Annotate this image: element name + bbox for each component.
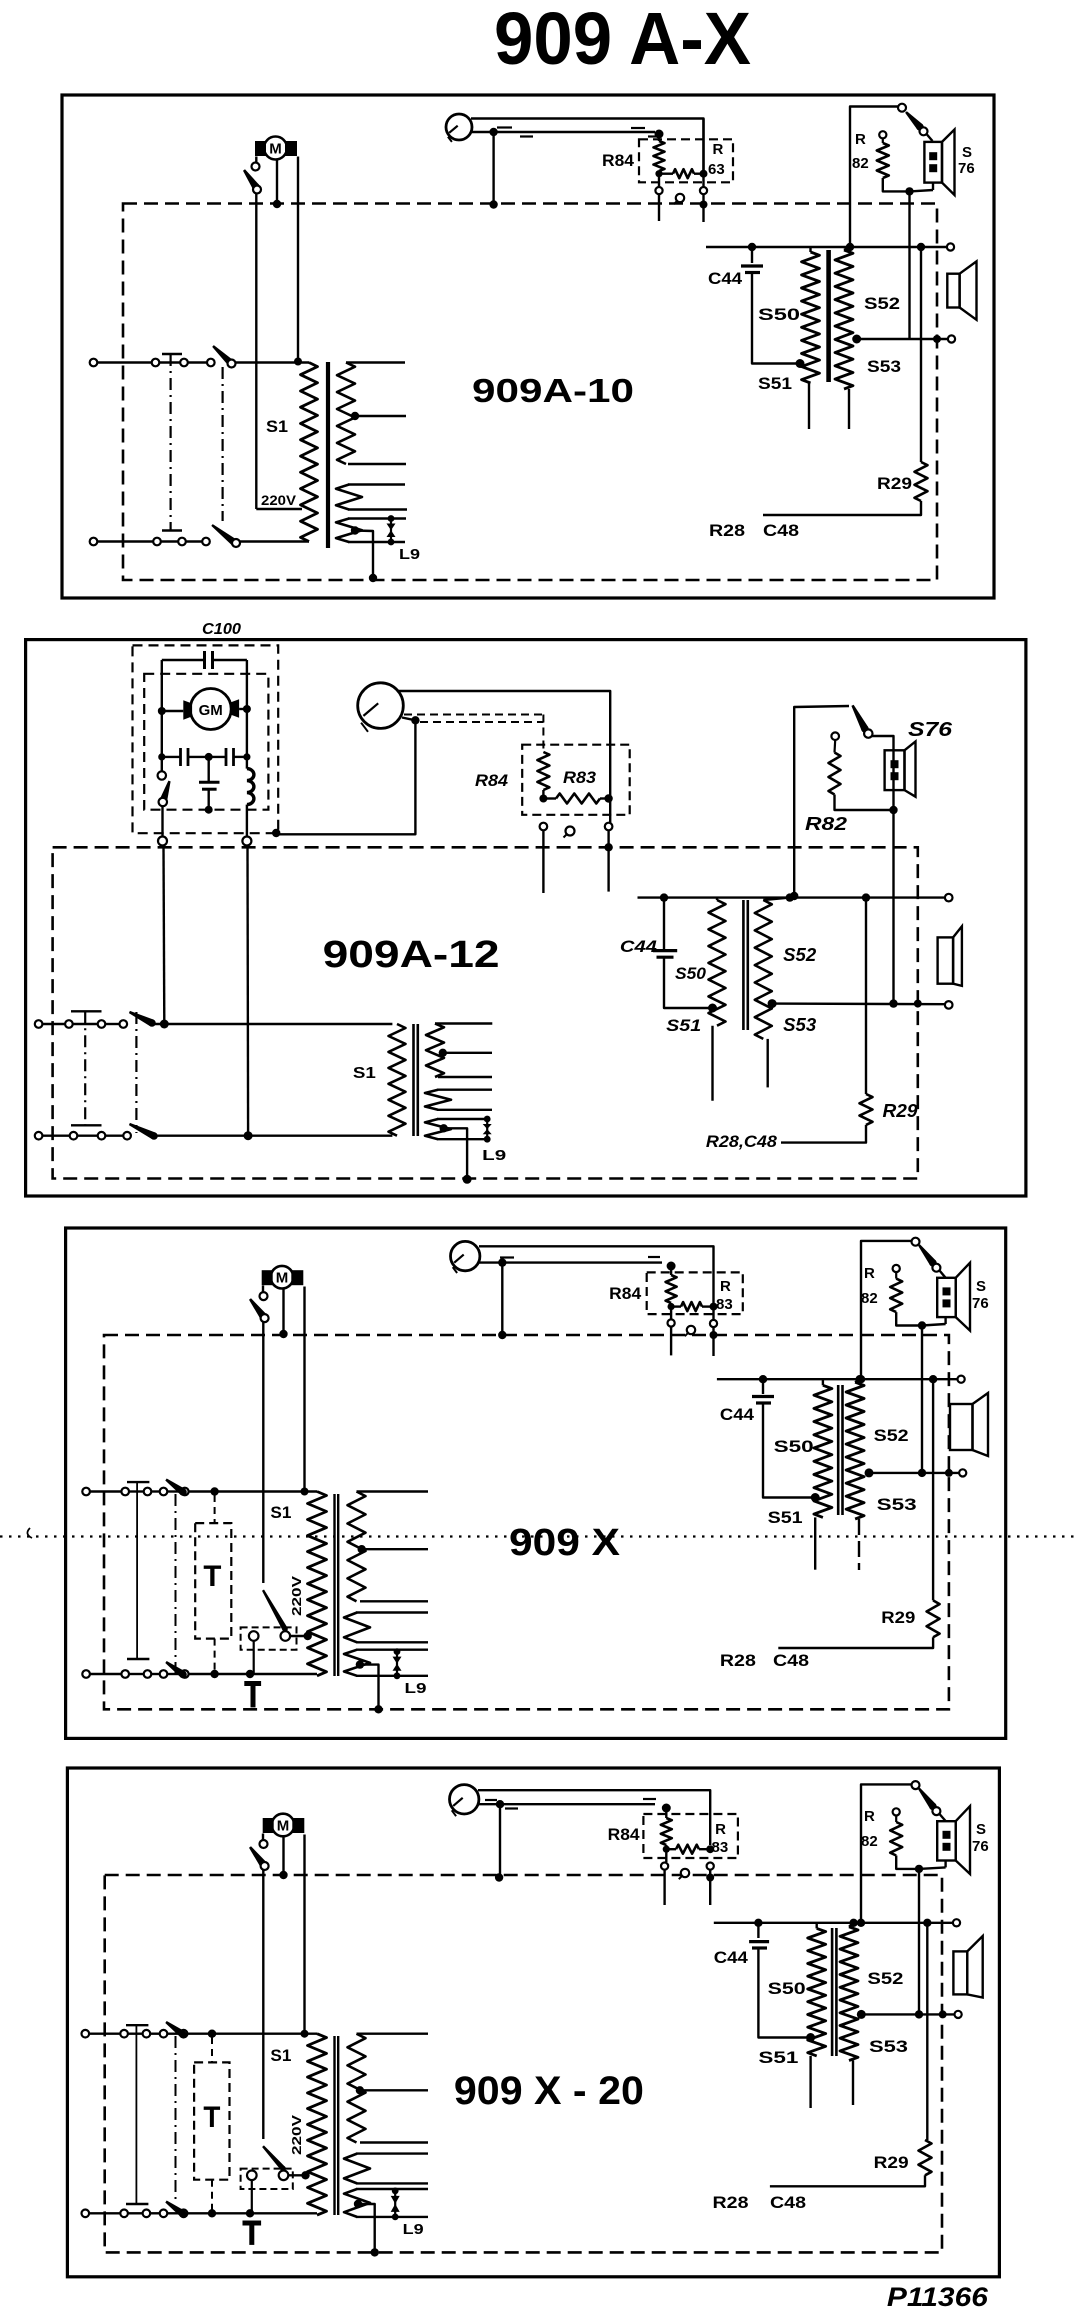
svg-text:83: 83 <box>712 1839 729 1856</box>
svg-text:76: 76 <box>972 1838 989 1855</box>
gang T-bar (909X-20) <box>126 2025 148 2204</box>
svg-text:C48: C48 <box>770 2193 806 2212</box>
svg-text:S50: S50 <box>758 305 800 324</box>
thermo switch box (909X) <box>241 1627 297 1649</box>
loudspeaker (909X-20) <box>953 1936 982 1998</box>
wire junction down (909X) <box>918 1326 926 1478</box>
wire motor bottom (909X-20) <box>279 1837 287 1880</box>
svg-text:S52: S52 <box>864 294 900 313</box>
svg-text:S1: S1 <box>353 1065 376 1082</box>
core output transformer (909X) <box>838 1385 842 1515</box>
resistor R29 (909X) <box>778 1600 939 1648</box>
dashed box R84/R83 (909X) <box>647 1272 743 1314</box>
panel 909X outer border <box>66 1228 1006 1738</box>
label C100 <box>202 621 241 638</box>
svg-text:S1: S1 <box>266 417 288 436</box>
switch lever thermo (909X) <box>262 1590 288 1632</box>
core S1 (909A-10) <box>326 362 330 548</box>
svg-text:63: 63 <box>708 161 725 178</box>
svg-text:S52: S52 <box>783 945 816 965</box>
resistor R84 (909X) <box>666 1262 677 1319</box>
winding S52/S53 (909X-20) <box>840 1919 858 2105</box>
node S53 tap (909X-20) <box>857 2010 866 2019</box>
panel 909A-10 outer border <box>62 95 994 598</box>
wire S53 tap to terminal <box>857 335 955 343</box>
svg-text:S53: S53 <box>877 1495 917 1514</box>
wire lamp tap down (909X-20) <box>495 1804 503 1882</box>
transformer S1 primary (909X-20) <box>308 2034 327 2215</box>
resistor R29 (909A-10) <box>763 462 928 515</box>
svg-text:L9: L9 <box>399 546 420 563</box>
label 220V vertical (909X-20) <box>289 2115 304 2155</box>
winding S52/S53 (909A-10) <box>835 247 853 429</box>
transformer S1 secondary upper (909X-20) <box>348 2034 429 2143</box>
svg-text:S51: S51 <box>758 2048 798 2067</box>
svg-text:R84: R84 <box>602 151 635 170</box>
node S53 tap (909X) <box>865 1468 874 1477</box>
wire R82 loop left (909X) <box>857 1241 912 1384</box>
svg-text:T: T <box>203 2101 220 2134</box>
capacitor row GM <box>158 748 250 766</box>
capacitor C100 <box>162 651 247 669</box>
plug symbol (909A-12) <box>564 827 575 838</box>
svg-text:909 A-X: 909 A-X <box>494 0 751 80</box>
capacitor GM shunt <box>199 757 220 814</box>
dashed box R84/R63 (909A-10) <box>639 139 733 182</box>
wire thermo to S1 tap (909X-20) <box>288 2171 309 2179</box>
svg-text:R28: R28 <box>713 2193 749 2212</box>
terminal GM left <box>158 837 167 846</box>
core S1 (909X) <box>335 1494 339 1676</box>
transformer S1 secondary upper (909X) <box>348 1492 429 1602</box>
label R84 (909A-12) <box>475 771 509 790</box>
spark gap L9 (909X-20) <box>391 2188 400 2221</box>
label S51 (909X) <box>768 1508 803 1527</box>
label C44 (909A-10) <box>708 269 743 288</box>
node tap low (909A-12) <box>440 1124 448 1132</box>
wire output top (909X) <box>717 1376 965 1383</box>
wire lamp top to R83 (909X-20) <box>478 1790 710 1845</box>
svg-text:82: 82 <box>852 155 869 172</box>
svg-text:909 X: 909 X <box>509 1522 621 1564</box>
node tap S1 (909A-12) <box>439 1049 492 1057</box>
svg-text:S53: S53 <box>867 357 901 376</box>
plug symbol (909X) <box>685 1326 695 1336</box>
svg-text:C44: C44 <box>720 1405 755 1424</box>
svg-text:R: R <box>715 1821 726 1838</box>
capacitor C44 (909X) <box>752 1379 813 1497</box>
wire GM right <box>239 705 251 713</box>
transformer S1 primary (909X) <box>308 1492 327 1676</box>
panel 909X-20 outer border <box>67 1768 999 2277</box>
label R29 (909X-20) <box>874 2153 909 2172</box>
resistor R84 (909A-12) <box>537 752 549 799</box>
transformer S1 secondary upper (909A-12) <box>426 1024 492 1078</box>
resistor R82 (909X) <box>890 1265 922 1326</box>
gang T-bar (909X) <box>127 1482 149 1659</box>
wire motor right brush down <box>294 157 302 366</box>
svg-text:M: M <box>276 1270 289 1287</box>
panel 909A-10 inner dashed boundary <box>123 204 937 581</box>
label S50 (909A-10) <box>758 305 800 324</box>
switch (speaker, 909A-10) <box>898 104 933 141</box>
pilot lamp (909A-12) <box>358 683 404 732</box>
panel 909X inner dashed boundary <box>104 1335 949 1709</box>
svg-text:R83: R83 <box>563 768 597 787</box>
svg-text:C48: C48 <box>763 521 799 540</box>
motor M (909X) <box>262 1266 304 1289</box>
svg-text:S51: S51 <box>768 1508 803 1527</box>
label R 82 (909X) <box>861 1265 878 1307</box>
label 909A-12 <box>323 934 500 976</box>
wire tap to dashed border <box>355 531 377 583</box>
thermal T dashed link (909X) <box>214 1495 216 1674</box>
label S52 (909X) <box>874 1426 909 1445</box>
winding S50/S51 (909A-10) <box>796 247 820 429</box>
svg-text:220V: 220V <box>289 2115 304 2155</box>
wire GM right down to bottom row <box>244 846 253 1141</box>
resistor R63 (909A-10) <box>655 169 707 178</box>
loudspeaker (909A-10) <box>947 261 976 319</box>
motor M (909X-20) <box>263 1814 305 1837</box>
pilot lamp (909X-20) <box>450 1785 479 1817</box>
wire GM left <box>158 707 184 715</box>
terminal row bottom (909A-12) <box>35 1132 131 1140</box>
wire output top (909A-12) <box>638 894 953 902</box>
label C44 (909X-20) <box>714 1948 749 1967</box>
switch bottom (909X-20) <box>165 2201 317 2218</box>
label R29 (909A-10) <box>877 474 912 493</box>
winding S1 low (909A-10) <box>336 519 406 543</box>
svg-text:R28: R28 <box>709 521 745 540</box>
winding S52/S53 (909X) <box>846 1375 864 1570</box>
wire junction down to S53 tap <box>908 191 910 339</box>
wire switch to junction <box>872 736 898 1008</box>
label 220V (909A-10) <box>261 492 297 508</box>
svg-text:L9: L9 <box>405 1680 427 1697</box>
label R83 (909A-12) <box>563 768 597 787</box>
junction lamp tap (909X) <box>498 1258 506 1266</box>
svg-text:S53: S53 <box>869 2037 908 2056</box>
svg-text:S1: S1 <box>270 2046 291 2065</box>
svg-text:S51: S51 <box>666 1016 701 1035</box>
title 909 A-X <box>494 0 751 80</box>
gang linkage switches (909A-12) <box>135 1012 137 1133</box>
label S50 (909A-12) <box>675 964 707 983</box>
label L9 (909X-20) <box>403 2221 424 2238</box>
wire motor bottom to dashed border <box>273 160 281 209</box>
svg-text:S1: S1 <box>270 1503 291 1522</box>
motor M (909A-10) <box>255 137 297 160</box>
label S51 (909A-10) <box>758 374 792 393</box>
node C44 top (909X-20) <box>754 1919 762 1927</box>
svg-text:S: S <box>962 144 972 161</box>
label R82 (909A-12) <box>805 814 847 834</box>
switch motor (909X-20) <box>249 1834 269 1871</box>
resistor R83 (909X-20) <box>663 1845 715 1854</box>
wire lamp second (909X-20) <box>477 1799 656 1809</box>
wire motor switch down (909X) <box>262 1322 264 1583</box>
plug symbol (909A-10) <box>674 194 684 204</box>
svg-text:R28: R28 <box>720 1651 756 1670</box>
label R 82 (909A-10) <box>852 131 869 172</box>
core S1 (909A-12) <box>414 1024 418 1136</box>
wire output top (909X-20) <box>714 1919 960 1926</box>
switch speaker (909A-12) <box>790 705 873 901</box>
pilot lamp (909X) <box>451 1241 480 1273</box>
winding S50/S51 (909X) <box>811 1379 832 1570</box>
svg-text:220V: 220V <box>289 1576 304 1616</box>
terminal row top (909A-12) <box>35 1020 127 1028</box>
wire R83 right vertical <box>609 799 611 823</box>
terminal below R83 (909X) <box>710 1310 718 1356</box>
wire tap low to border (909X) <box>360 1665 383 1714</box>
wire to R29 (909A-12) <box>862 893 870 1094</box>
switch speaker (909X-20) <box>912 1781 946 1821</box>
resistor R82 (909X-20) <box>890 1808 919 1869</box>
label R28 C48 (909X-20) <box>713 2193 807 2212</box>
core output transformer (909A-10) <box>826 250 831 382</box>
label L9 (909A-10) <box>399 546 420 563</box>
wire motor right (909X) <box>301 1287 309 1496</box>
terminal GM right <box>242 837 251 846</box>
panel 909A-12 outer border <box>26 640 1026 1196</box>
wire GM left down to switch row <box>160 846 169 1029</box>
choke coil GM <box>247 769 254 837</box>
label 909A-10 <box>472 372 634 409</box>
label S1 (909A-10) <box>266 417 288 436</box>
node C44 top (909X) <box>759 1375 767 1383</box>
loudspeaker (909X) <box>950 1393 988 1456</box>
dashed box R84/R83 (909A-12) <box>522 745 630 815</box>
svg-text:R: R <box>713 141 724 158</box>
winding S50/S51 (909A-12) <box>708 898 726 1101</box>
dashed box R84/R83 (909X-20) <box>643 1814 738 1858</box>
label R 63 <box>708 141 725 178</box>
wire tap to terminal (909A-12) <box>772 1000 952 1009</box>
switch motor (909X) <box>249 1286 269 1323</box>
svg-text:C44: C44 <box>708 269 743 288</box>
switch top (909A-12) <box>129 1011 393 1027</box>
wire tap low to border (909X-20) <box>358 2204 379 2257</box>
wire lamp tap down-left <box>272 716 420 837</box>
label S53 (909X-20) <box>869 2037 908 2056</box>
wire to R29 (909X-20) <box>923 1919 931 2140</box>
winding S1 low (909X) <box>344 1650 428 1676</box>
wire lamp top (909A-12) <box>398 691 610 799</box>
transformer S1 primary (909A-10) <box>301 363 318 542</box>
winding S1 low (909X-20) <box>344 2189 428 2217</box>
panel 909X-20 inner dashed boundary <box>105 1875 942 2252</box>
svg-text:82: 82 <box>861 1833 878 1850</box>
speaker S76 (909A-10) <box>910 130 955 196</box>
wire R82 loop left (909X-20) <box>857 1784 912 1927</box>
wire thermo to S1 tap (909X) <box>290 1632 312 1640</box>
node tap low (909X-20) <box>354 2200 362 2208</box>
wire lamp top to R63 <box>471 119 704 172</box>
svg-text:S51: S51 <box>758 374 792 393</box>
svg-text:909 X - 20: 909 X - 20 <box>454 2069 644 2113</box>
drawing number P11366 <box>887 2282 989 2312</box>
speaker S76 (909X) <box>922 1263 970 1331</box>
node tap (909X-20) <box>356 2086 428 2094</box>
label S52 (909X-20) <box>867 1969 903 1988</box>
label S53 (909X) <box>877 1495 917 1514</box>
switch lever thermo (909X-20) <box>262 2145 286 2171</box>
wire GM box right vertical <box>246 660 248 769</box>
switch bottom (909A-12) <box>129 1123 393 1140</box>
switch GM <box>158 771 171 836</box>
label R28 C48 (909X) <box>720 1651 809 1670</box>
winding S50/S51 (909X-20) <box>806 1923 826 2108</box>
switch top row (909A-10) <box>212 345 309 368</box>
terminal below R83 (909X-20) <box>706 1863 714 1906</box>
terminal below R84 (909X) <box>668 1319 675 1355</box>
label R 82 (909X-20) <box>861 1808 878 1850</box>
transformer S1 secondary upper (909A-10) <box>337 363 405 465</box>
terminal below R84 (909A-12) <box>540 823 548 893</box>
svg-text:909A-12: 909A-12 <box>323 934 500 976</box>
svg-text:L9: L9 <box>482 1147 506 1164</box>
resistor R82 (909A-10) <box>877 131 910 191</box>
node C44 top <box>748 243 756 251</box>
svg-text:C44: C44 <box>714 1948 749 1967</box>
label S1 (909X) <box>270 1503 291 1522</box>
svg-text:C44: C44 <box>620 937 658 956</box>
resistor R29 (909X-20) <box>770 2140 932 2186</box>
svg-text:R29: R29 <box>883 1101 918 1121</box>
wire to R29 (909X) <box>929 1375 937 1600</box>
label R 83 (909X-20) <box>712 1821 729 1856</box>
winding S1 mid (909X) <box>344 1613 428 1643</box>
wire thermo circle down (909X-20) <box>251 2180 253 2213</box>
terminal row top (909X-20) <box>82 2030 188 2038</box>
svg-text:R84: R84 <box>609 1284 642 1303</box>
core S1 (909X-20) <box>335 2036 339 2215</box>
svg-text:R: R <box>720 1278 731 1295</box>
terminal output top right <box>947 243 954 250</box>
pilot lamp (909A-10) <box>446 114 472 142</box>
thermal symbol T below (909X-20) <box>243 2223 262 2245</box>
dotted line across page <box>0 1535 1074 1537</box>
switch top (909X-20) <box>165 2021 317 2038</box>
svg-text:S53: S53 <box>783 1015 816 1035</box>
junction R82/speaker (909X) <box>918 1321 926 1329</box>
label R 83 (909X) <box>716 1278 733 1313</box>
svg-text:P11366: P11366 <box>887 2282 989 2312</box>
gang linkage dash-dot (909X-20) <box>175 2036 177 2204</box>
node S53 tap <box>852 335 861 344</box>
label S 76 (909X-20) <box>972 1821 989 1855</box>
svg-text:S: S <box>976 1278 986 1295</box>
resistor R84 (909A-10) <box>654 130 665 187</box>
node S1 secondary tap <box>351 412 359 420</box>
label S52 (909A-12) <box>783 945 816 965</box>
wire lamp second (909X) <box>478 1257 662 1263</box>
label R84 (909A-10) <box>602 151 635 170</box>
terminal row top (909X) <box>82 1488 188 1496</box>
svg-text:S52: S52 <box>867 1969 903 1988</box>
wire S1 secondary bottom (909A-10) <box>348 463 406 465</box>
spark gap L9 (909A-10) <box>387 515 396 545</box>
gang linkage dash-dot (909X) <box>175 1494 177 1674</box>
resistor R84 (909X-20) <box>661 1804 672 1863</box>
label S51 (909X-20) <box>758 2048 798 2067</box>
svg-text:M: M <box>277 1818 290 1835</box>
wire R63 right vertical <box>702 119 704 187</box>
svg-text:S52: S52 <box>874 1426 909 1445</box>
svg-text:R29: R29 <box>881 1608 915 1627</box>
winding S52/S53 (909A-12) <box>755 893 794 1087</box>
wire lamp tap down to border <box>489 132 497 209</box>
label R29 (909A-12) <box>883 1101 918 1121</box>
panel 909A-12 inner dashed boundary <box>53 847 918 1178</box>
svg-text:S76: S76 <box>908 719 953 741</box>
spark gap L9 (909X) <box>393 1648 402 1679</box>
junction R82/speaker <box>905 187 913 195</box>
label S50 (909X) <box>774 1437 814 1456</box>
junction lamp tap (909X-20) <box>496 1800 504 1808</box>
label S53 (909A-12) <box>783 1015 816 1035</box>
svg-text:S50: S50 <box>675 964 707 983</box>
core output transformer (909A-12) <box>743 900 747 1030</box>
label R28,C48 (909A-12) <box>706 1132 778 1151</box>
svg-text:C48: C48 <box>773 1651 809 1670</box>
svg-text:R28,C48: R28,C48 <box>706 1132 778 1151</box>
label R84 (909X) <box>609 1284 642 1303</box>
label S76 (909A-12) <box>908 719 953 741</box>
label C44 (909X) <box>720 1405 755 1424</box>
winding S1 low (909A-12) <box>425 1119 487 1139</box>
gang linkage T-bar (909A-10) <box>162 354 182 531</box>
wire GM box left vertical <box>161 660 163 772</box>
label 909 X -20 <box>454 2069 644 2113</box>
label S52 (909A-10) <box>864 294 900 313</box>
node C44 (909A-12) <box>660 893 668 901</box>
label R84 (909X-20) <box>608 1825 641 1844</box>
capacitor C44 (909X-20) <box>749 1923 808 2038</box>
svg-text:82: 82 <box>861 1290 878 1307</box>
label S53 (909A-10) <box>867 357 901 376</box>
svg-text:C100: C100 <box>202 621 241 638</box>
core output transformer (909X-20) <box>832 1928 836 2056</box>
resistor R29 (909A-12) <box>781 1094 873 1143</box>
mark left margin <box>27 1528 32 1538</box>
switch top (909X) <box>165 1479 317 1496</box>
dashed box GM outer <box>133 645 279 833</box>
svg-text:76: 76 <box>972 1295 989 1312</box>
thermal cutout T box (909X) <box>195 1523 231 1639</box>
label 220V vertical (909X) <box>289 1576 304 1616</box>
svg-text:R: R <box>864 1265 875 1282</box>
switch speaker (909X) <box>912 1238 946 1278</box>
label C44 (909A-12) <box>620 937 658 956</box>
switch bottom (909X) <box>165 1661 317 1678</box>
wire motor bottom (909X) <box>279 1289 287 1339</box>
label L9 (909X) <box>405 1680 427 1697</box>
svg-text:76: 76 <box>958 160 975 177</box>
wire lamp tap down (909X) <box>498 1263 506 1340</box>
svg-text:909A-10: 909A-10 <box>472 372 634 409</box>
label S 76 (909A-10) <box>958 144 975 177</box>
terminal row bottom (909A-10) <box>90 538 210 546</box>
node tap low (909X) <box>356 1660 364 1668</box>
label S1 (909X-20) <box>270 2046 291 2065</box>
wire R82 loop left vertical <box>846 107 899 252</box>
svg-text:R: R <box>864 1808 875 1825</box>
motor GM <box>183 689 239 730</box>
label S50 (909X-20) <box>768 1979 806 1998</box>
